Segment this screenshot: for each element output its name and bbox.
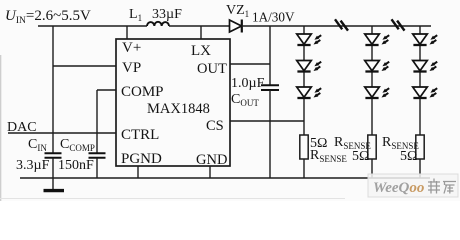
LED D3 <box>297 87 322 98</box>
LED D9 <box>413 87 438 98</box>
wire break symbol 2 <box>392 19 405 30</box>
wire: LED column 1 vertical <box>303 26 305 135</box>
wire: top rail between inductor and diode VZ1 <box>169 25 230 27</box>
ground <box>44 189 65 192</box>
LED D7 <box>413 34 438 45</box>
svg-text:LX: LX <box>191 43 211 59</box>
wire: LX pin stub <box>200 26 202 39</box>
LED D5 <box>365 61 390 72</box>
wire: column 3 resistor to ground rail <box>419 159 421 178</box>
svg-text:GND: GND <box>196 152 227 168</box>
inductor L1 <box>147 22 169 26</box>
wire: PGND pin stub <box>137 166 139 178</box>
wire: GND pin stub <box>209 166 211 178</box>
wire: COMP pin to C_COMP <box>97 89 116 91</box>
wire: C_COMP bottom to ground rail <box>96 158 98 178</box>
wire: output node vertical (rail to C_OUT) <box>269 26 271 85</box>
wire: LED column 2 vertical <box>371 26 373 135</box>
wire: C_IN bottom to ground <box>52 158 54 189</box>
wire: bottom ground rail <box>20 177 430 179</box>
svg-text:COMP: COMP <box>121 84 164 100</box>
resistor R_SENSE 3 <box>416 135 424 159</box>
svg-text:VP: VP <box>122 60 141 76</box>
wire: vertical from input rail down to C_IN <box>52 26 54 153</box>
svg-text:V+: V+ <box>122 40 141 56</box>
svg-text:1A/30V: 1A/30V <box>252 10 295 25</box>
svg-text:5Ω: 5Ω <box>400 149 417 164</box>
capacitor C_IN <box>45 153 62 158</box>
svg-text:5Ω: 5Ω <box>352 149 369 164</box>
wire: LED column 3 vertical <box>419 26 421 135</box>
capacitor C_COMP <box>89 153 106 158</box>
scan artifact left edge <box>0 55 2 201</box>
wire: CS pin to sense node <box>230 120 304 122</box>
svg-text:CTRL: CTRL <box>121 127 159 143</box>
LED D6 <box>365 87 390 98</box>
svg-text:CS: CS <box>206 118 224 134</box>
svg-text:WeeQoo: WeeQoo <box>373 180 424 196</box>
svg-text:1.0µF: 1.0µF <box>231 76 265 91</box>
wire: OUT pin to output node <box>230 63 270 65</box>
resistor R_SENSE 2 <box>368 135 376 159</box>
diode VZ1 <box>230 20 242 33</box>
wire: V+ pin stub <box>126 26 128 39</box>
wire: C_COMP vertical upper <box>96 90 98 153</box>
wire break symbol 1 <box>335 19 348 30</box>
svg-text:150nF: 150nF <box>58 158 94 173</box>
LED D4 <box>365 34 390 45</box>
LED D2 <box>297 61 322 72</box>
capacitor C_OUT <box>261 85 279 90</box>
svg-text:33µF: 33µF <box>152 7 182 22</box>
scan artifact bottom edge <box>0 198 345 200</box>
op-amp U1 MAX1848 box <box>116 39 230 166</box>
LED D8 <box>413 61 438 72</box>
wire: C_OUT bottom to ground rail <box>269 90 271 178</box>
wire: branch to VP pin <box>53 65 116 67</box>
watermark box <box>368 174 458 197</box>
wire: top rail from diode to right end <box>243 25 431 27</box>
svg-text:OUT: OUT <box>197 61 227 77</box>
wire: DAC line to CTRL pin <box>8 132 116 134</box>
LED D1 <box>297 34 322 45</box>
wire: column 2 resistor to ground rail <box>371 159 373 178</box>
svg-text:PGND: PGND <box>121 151 162 167</box>
wire: column 1 resistor to ground rail <box>303 159 305 178</box>
svg-text:3.3µF: 3.3µF <box>16 158 50 173</box>
svg-text:MAX1848: MAX1848 <box>147 101 210 117</box>
wire: top input rail left segment <box>38 25 147 27</box>
resistor R_SENSE 1 <box>300 135 308 159</box>
